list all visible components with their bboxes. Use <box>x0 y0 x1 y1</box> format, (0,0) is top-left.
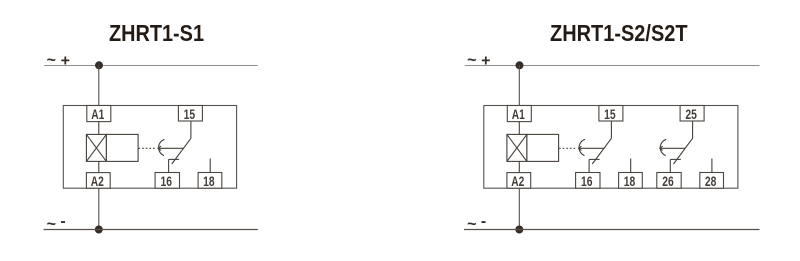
label ~ - <box>467 213 486 233</box>
svg-text:~: ~ <box>47 52 56 69</box>
junction dot bottom <box>95 226 103 234</box>
terminal 18 <box>198 173 222 189</box>
svg-text:18: 18 <box>203 174 215 189</box>
svg-text:15: 15 <box>604 107 616 122</box>
coil K1 (crossed box with extension) <box>507 134 559 161</box>
svg-text:28: 28 <box>705 174 717 189</box>
wire supply to A1 <box>518 65 520 106</box>
svg-text:-: - <box>60 213 65 230</box>
svg-text:~: ~ <box>47 216 56 233</box>
wire bottom supply line <box>464 229 760 231</box>
wire supply to A1 <box>98 65 100 106</box>
terminal A1 <box>87 106 111 123</box>
contact blade 15-16 (NC closed) <box>172 138 191 164</box>
wire A2 to bottom supply <box>98 188 100 229</box>
svg-text:A2: A2 <box>91 174 104 189</box>
actuator link with arrow <box>158 146 184 150</box>
wire coil to A2 <box>518 161 520 172</box>
NC contact 26 (riser and tick) <box>670 159 681 172</box>
wire coil to A2 <box>98 161 100 172</box>
wire A2 to bottom supply <box>518 188 520 229</box>
wire 25 to contact pivot <box>692 121 694 138</box>
relay outline <box>63 106 236 189</box>
terminal 15 <box>599 106 623 123</box>
junction dot top <box>95 61 103 69</box>
wire bottom supply line <box>44 229 258 231</box>
svg-text:16: 16 <box>161 174 173 189</box>
svg-text:A2: A2 <box>511 174 524 189</box>
NO contact 28 (riser) <box>711 159 713 173</box>
terminal 18 <box>619 173 643 189</box>
svg-text:-: - <box>481 213 486 230</box>
terminal A2 <box>507 173 531 189</box>
svg-text:ZHRT1-S2/S2T: ZHRT1-S2/S2T <box>550 20 688 46</box>
wire 15 to contact pivot <box>610 121 612 138</box>
time-delay arc <box>579 139 585 155</box>
actuator link with arrow <box>660 146 686 150</box>
terminal 25 <box>680 106 704 123</box>
wire A1 to coil <box>518 122 520 135</box>
time-delay arc <box>660 139 666 155</box>
relay outline <box>484 106 738 189</box>
svg-text:18: 18 <box>624 174 636 189</box>
actuator link with arrow <box>578 146 604 150</box>
svg-text:ZHRT1-S1: ZHRT1-S1 <box>109 20 204 46</box>
terminal 16 <box>576 173 600 189</box>
svg-text:A1: A1 <box>91 107 104 122</box>
svg-text:~: ~ <box>467 52 476 69</box>
svg-text:15: 15 <box>184 107 196 122</box>
svg-text:25: 25 <box>685 107 697 122</box>
wire A1 to coil <box>98 122 100 135</box>
NO contact 18 (riser) <box>630 159 632 173</box>
svg-text:26: 26 <box>662 174 674 189</box>
junction dot bottom <box>515 226 523 234</box>
terminal A1 <box>507 106 531 123</box>
coil K1 (crossed box with extension) <box>86 134 138 161</box>
terminal A2 <box>86 173 110 189</box>
time-delay arc <box>159 139 165 155</box>
terminal 26 <box>657 173 681 189</box>
dotted actuation line from coil <box>559 147 577 149</box>
svg-text:16: 16 <box>581 174 593 189</box>
NO contact 18 (riser) <box>209 159 211 173</box>
wire top supply line <box>465 65 760 67</box>
svg-text:+: + <box>61 52 70 69</box>
NC contact 16 (riser and tick) <box>589 159 600 172</box>
svg-text:+: + <box>481 52 490 69</box>
dotted actuation line from coil <box>139 147 157 149</box>
terminal 15 <box>178 106 202 123</box>
NC contact 16 (riser and tick) <box>169 159 180 172</box>
label ~ + <box>467 52 490 69</box>
wire top supply line <box>44 65 258 67</box>
label ~ + <box>47 52 70 69</box>
svg-text:A1: A1 <box>512 107 525 122</box>
terminal 16 <box>155 173 179 189</box>
contact blade 15-16 (NC closed) <box>592 138 611 164</box>
junction dot top <box>516 61 524 69</box>
wire 15 to contact pivot <box>190 121 192 138</box>
svg-text:~: ~ <box>467 216 476 233</box>
terminal 28 <box>700 173 724 189</box>
contact blade 25-26 (NC closed) <box>674 138 693 164</box>
label ~ - <box>47 213 66 233</box>
